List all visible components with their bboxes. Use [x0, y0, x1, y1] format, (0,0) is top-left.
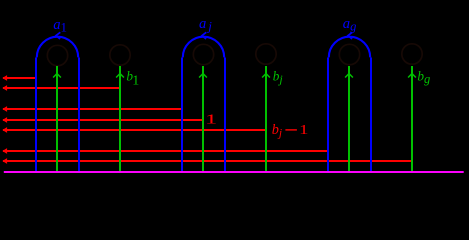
hole circle 4 (at b_j): [256, 44, 276, 64]
magenta boundary line: [4, 171, 464, 173]
svg-text:1: 1: [299, 123, 308, 138]
green line b_g: [408, 66, 416, 172]
arrow on arch a_1: [56, 32, 60, 39]
green line b_j: [262, 66, 270, 172]
red line 7 (y=161, to b_g): [2, 158, 412, 164]
green line inside arch 2: [199, 66, 207, 172]
blue arch a_j: [182, 37, 225, 172]
svg-text:bj: bj: [273, 69, 284, 87]
hole circle 1 (under arch a_1): [47, 45, 67, 65]
red line 3 (y=109, to arch2 left leg): [2, 106, 182, 112]
blue arch a_1: [36, 37, 79, 172]
red line 2 (y=88, to b_1): [2, 85, 120, 91]
hole circle 3 (under arch a_j): [193, 44, 213, 64]
hole circle 2 (at b_1): [110, 45, 130, 65]
svg-text:ag: ag: [343, 16, 357, 34]
green line inside arch 1: [53, 66, 61, 172]
svg-text:aj: aj: [199, 16, 212, 34]
svg-text:1: 1: [205, 112, 217, 127]
red line 4 (y=120, to inner green of handle 2, label 1): [2, 117, 203, 123]
blue arch a_g: [328, 37, 371, 172]
red line 5 (y=130, to b_j, label b_j-1): [2, 127, 266, 133]
arrow on arch a_j: [202, 32, 206, 39]
arrow on arch a_g: [348, 32, 352, 39]
hole circle 6 (at b_g): [402, 44, 422, 64]
red line 6 (y=151, to arch3 left leg): [2, 148, 328, 154]
svg-text:bg: bg: [417, 69, 430, 87]
hole circle 5 (under arch a_g): [339, 44, 359, 64]
svg-text:a1: a1: [53, 17, 67, 35]
green line inside arch 3: [345, 66, 353, 172]
green line b_1: [116, 66, 124, 172]
red line 1 (y=78, to arch1 left leg): [2, 75, 36, 81]
